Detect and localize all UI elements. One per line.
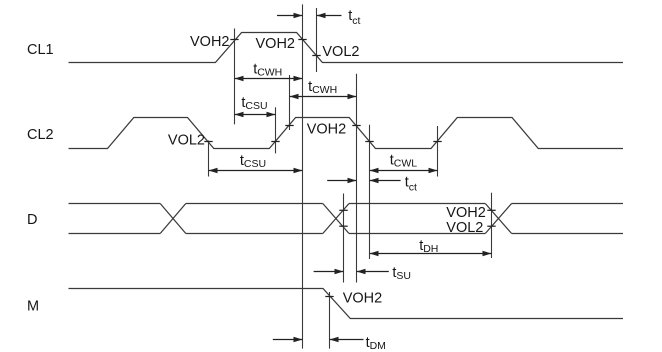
reference line CL1 falling VOL2 — [316, 8, 318, 72]
tick CL2 rising edge 3 VOL2 — [433, 141, 441, 143]
label tCWL — [390, 153, 417, 170]
label tCWH first — [253, 62, 282, 79]
tick D crossover 3 VOL2 — [487, 225, 495, 227]
reference line D valid at crossover 2 — [343, 194, 345, 283]
svg-text:CWH: CWH — [257, 67, 282, 79]
dimension tSU right arrow — [357, 269, 389, 274]
reference line CL2 rising VOL2 right — [437, 126, 439, 177]
tick D crossover 3 VOH2 — [487, 209, 495, 211]
wire D bus bottom rail 2 — [186, 233, 323, 235]
svg-text:VOL2: VOL2 — [446, 220, 483, 236]
dimension tCSU second — [209, 168, 303, 173]
svg-text:VOH2: VOH2 — [307, 122, 347, 138]
reference line M falling VOH2 — [329, 292, 331, 349]
label tct second — [405, 174, 417, 193]
tick CL2 falling edge 2 VOH2 — [352, 125, 360, 127]
dimension tct second right arrow — [370, 178, 401, 183]
svg-text:CWH: CWH — [312, 84, 337, 96]
label tDH — [419, 238, 438, 255]
svg-text:VOL2: VOL2 — [322, 44, 359, 60]
dimension tct top left arrow — [277, 13, 303, 18]
reference line CL2 falling VOL2 left — [208, 141, 210, 177]
dimension tCWH first (CL1 high width) — [235, 76, 303, 81]
reference line CL2 falling VOH2 — [356, 74, 358, 283]
svg-text:VOH2: VOH2 — [446, 205, 486, 221]
label tDM — [366, 335, 386, 352]
svg-text:SU: SU — [396, 270, 411, 282]
wire D crossover 1 falling diagonal — [160, 204, 186, 234]
svg-text:CWL: CWL — [394, 158, 417, 170]
wire D crossover 1 rising diagonal — [160, 204, 186, 234]
tick CL2 falling edge 2 VOL2 — [365, 141, 373, 143]
wire D bus bottom rail 1 — [69, 233, 161, 235]
svg-text:VOH2: VOH2 — [190, 34, 230, 50]
wire D bus bottom rail 4 — [512, 233, 623, 235]
wire D bus top rail 1 — [69, 203, 161, 205]
wire D crossover 3 rising diagonal — [485, 204, 511, 234]
dimension tct second left arrow — [327, 178, 356, 183]
wire D crossover 2 rising diagonal — [323, 204, 349, 234]
label tSU — [392, 265, 411, 282]
tick D crossover 2 VOL2 — [339, 225, 347, 227]
svg-text:D: D — [27, 212, 37, 228]
svg-text:ct: ct — [352, 15, 360, 27]
svg-text:ct: ct — [409, 182, 417, 194]
wire D bus top rail 3 — [349, 203, 485, 205]
svg-text:DM: DM — [370, 340, 386, 352]
reference line CL2 falling VOL2 — [369, 125, 371, 259]
tick M falling edge VOH2 — [325, 296, 333, 298]
reference line CL1 falling VOH2 (full height) — [302, 4, 304, 348]
reference line D end of valid at crossover 3 — [491, 193, 493, 258]
reference line CL2 rising VOL2 — [275, 107, 277, 153]
reference line CL2 rising VOH2 — [289, 75, 291, 130]
wire D bus bottom rail 3 — [349, 233, 485, 235]
dimension tCWL — [370, 168, 438, 173]
wire D crossover 2 falling diagonal — [323, 204, 349, 234]
wire CL2 waveform — [69, 118, 624, 149]
svg-text:CL1: CL1 — [27, 42, 54, 58]
dimension tCSU first — [235, 112, 276, 117]
label tct top — [348, 8, 360, 27]
tick D crossover 2 VOH2 — [339, 209, 347, 211]
dimension tDM left arrow — [273, 337, 303, 342]
label tCSU first — [241, 95, 267, 112]
dimension tSU left arrow — [314, 269, 344, 274]
tick CL2 rising edge 2 VOL2 — [271, 141, 279, 143]
dimension tCWH second (CL2 high width) — [290, 94, 357, 99]
dimension tDM right arrow — [330, 337, 364, 342]
dimension tDH — [370, 251, 492, 256]
reference line CL1 rising VOH2 — [234, 29, 236, 125]
label tCWH second — [308, 79, 337, 96]
dimension tct top right arrow — [317, 13, 342, 18]
svg-text:CL2: CL2 — [27, 127, 54, 143]
wire D bus top rail 4 — [512, 203, 623, 205]
svg-text:DH: DH — [423, 243, 438, 255]
tick CL1 rising edge VOH2 — [230, 39, 238, 41]
svg-text:VOL2: VOL2 — [168, 132, 205, 148]
svg-text:VOH2: VOH2 — [256, 36, 296, 52]
svg-text:CSU: CSU — [244, 158, 266, 170]
tick CL1 falling edge VOL2 — [312, 55, 320, 57]
svg-text:CSU: CSU — [245, 100, 267, 112]
tick CL2 rising edge 2 VOH2 — [285, 125, 293, 127]
label tCSU second — [240, 153, 266, 170]
tick CL2 falling edge 1 VOL2 — [204, 141, 212, 143]
svg-text:VOH2: VOH2 — [343, 290, 383, 306]
svg-text:M: M — [27, 299, 39, 315]
wire CL1 waveform — [69, 33, 624, 63]
wire M waveform — [69, 289, 624, 319]
wire D crossover 3 falling diagonal — [485, 204, 511, 234]
wire D bus top rail 2 — [186, 203, 323, 205]
tick CL1 falling edge VOH2 — [298, 39, 306, 41]
